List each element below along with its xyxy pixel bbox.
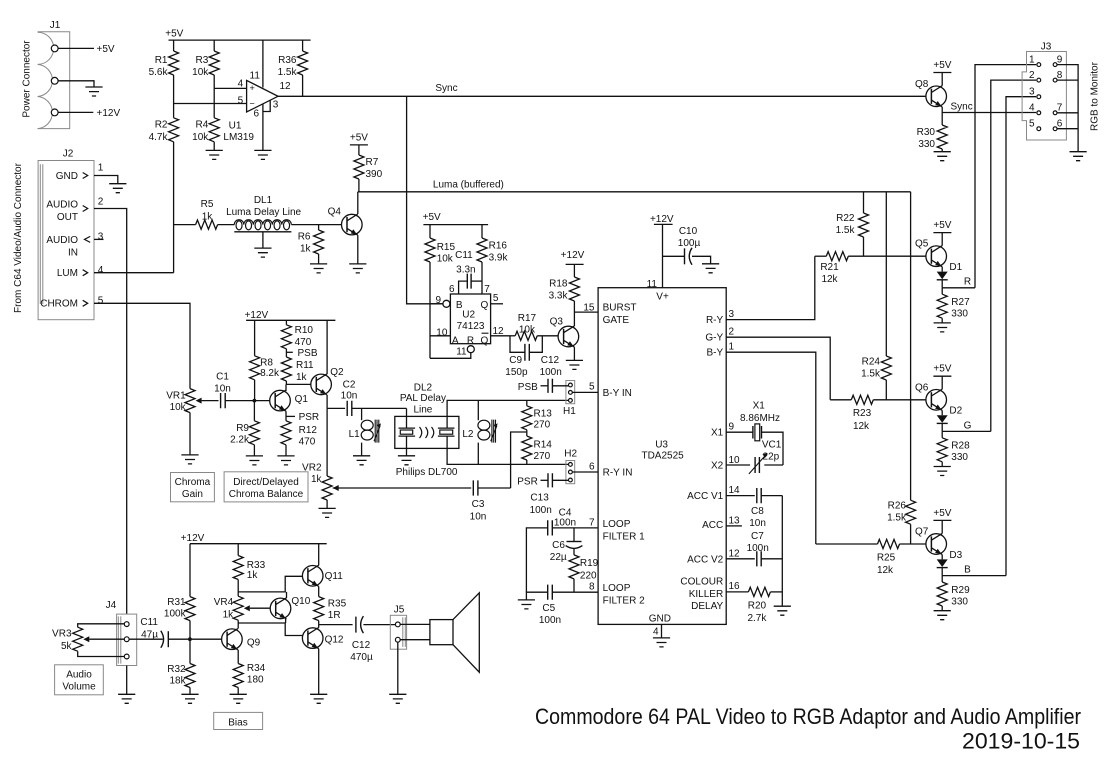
svg-text:13: 13 [729, 515, 741, 526]
svg-text:R17: R17 [518, 313, 537, 324]
wire R1-R2 node to U1 pin5 [174, 75, 247, 118]
svg-text:2: 2 [1029, 70, 1035, 81]
svg-text:3.3n: 3.3n [456, 264, 475, 275]
pin 12 U2 output wire [491, 326, 510, 337]
resistor R33 1k [233, 544, 265, 597]
svg-text:D3: D3 [949, 550, 962, 561]
wires J3 pins 9 8 7 6 to ground [1057, 65, 1078, 152]
svg-text:AUDIO: AUDIO [46, 200, 78, 211]
svg-text:4: 4 [238, 78, 244, 89]
svg-text:TDA2525: TDA2525 [641, 451, 684, 462]
svg-text:Line: Line [413, 405, 432, 416]
wire LUM to comparator divider and R5 [94, 225, 196, 273]
svg-text:11: 11 [250, 70, 261, 81]
power +12V chroma rail [245, 310, 336, 321]
svg-text:ACC V1: ACC V1 [687, 491, 724, 502]
wire Q11 collector to +12V [318, 544, 320, 566]
speaker [400, 593, 479, 672]
svg-text:R4: R4 [196, 120, 209, 131]
svg-text:2019-10-15: 2019-10-15 [962, 729, 1080, 754]
svg-text:LOOP: LOOP [603, 583, 631, 594]
svg-text:10n: 10n [470, 512, 487, 523]
svg-text:PAL Delay: PAL Delay [400, 393, 446, 404]
resistor R30 330 [917, 113, 948, 152]
svg-text:4.7k: 4.7k [149, 132, 169, 143]
label RGB to Monitor [1090, 61, 1101, 131]
pin 10 label U3 [729, 455, 741, 466]
wire C8/C7/R20 common to ground [781, 496, 783, 607]
svg-text:4: 4 [98, 265, 104, 276]
svg-text:18k: 18k [169, 676, 186, 687]
svg-text:7: 7 [1057, 103, 1063, 114]
svg-text:R28: R28 [951, 441, 970, 452]
svg-text:Gain: Gain [182, 489, 203, 500]
svg-text:R32: R32 [167, 664, 186, 675]
svg-text:DL1: DL1 [254, 195, 273, 206]
resistor R23 12k [830, 395, 926, 432]
svg-text:R24: R24 [862, 357, 881, 368]
power +5V tap Q5 [933, 220, 951, 246]
svg-text:5: 5 [98, 295, 104, 306]
svg-text:Bias: Bias [228, 717, 247, 728]
svg-text:VR3: VR3 [52, 629, 72, 640]
svg-text:+12V: +12V [650, 214, 674, 225]
resistor R5 1k [196, 199, 218, 229]
resistor R36 1.5k [278, 40, 308, 96]
ground R4 [206, 150, 223, 159]
svg-text:1k: 1k [223, 610, 235, 621]
connector J1 (power connector) [38, 20, 70, 129]
svg-text:KILLER: KILLER [689, 589, 723, 600]
svg-text:R35: R35 [328, 598, 347, 609]
svg-text:74123: 74123 [457, 321, 485, 332]
svg-text:X1: X1 [753, 400, 766, 411]
svg-text:3: 3 [98, 232, 104, 243]
svg-text:Q12: Q12 [325, 635, 344, 646]
svg-text:R33: R33 [247, 560, 266, 571]
svg-text:10: 10 [436, 327, 448, 338]
svg-text:+5V: +5V [97, 44, 115, 55]
svg-text:15: 15 [583, 302, 595, 313]
svg-text:R23: R23 [853, 408, 872, 419]
ground R20 [774, 606, 791, 615]
svg-text:3.3k: 3.3k [549, 290, 569, 301]
svg-text:10n: 10n [749, 518, 766, 529]
svg-text:C11: C11 [455, 250, 473, 261]
svg-text:B: B [456, 300, 463, 311]
svg-text:6: 6 [589, 461, 595, 472]
svg-text:D1: D1 [949, 262, 962, 273]
svg-text:R12: R12 [299, 425, 318, 436]
node B output [942, 565, 1006, 576]
svg-text:1.5k: 1.5k [887, 513, 907, 524]
svg-text:470µ: 470µ [350, 652, 373, 663]
svg-text:5: 5 [493, 293, 499, 304]
capacitor C1 10n [214, 371, 231, 408]
svg-text:COLOUR: COLOUR [680, 577, 723, 588]
node PSB tick [286, 348, 317, 359]
wire Q2 collector to +12V [326, 320, 328, 374]
svg-text:150p: 150p [505, 367, 528, 378]
pin 2 U3 G-Y output wire [726, 326, 830, 400]
capacitor C6 22u (polarized) [550, 528, 583, 563]
node G output [942, 420, 991, 431]
svg-text:22µ: 22µ [550, 552, 567, 563]
svg-text:U1: U1 [229, 121, 242, 132]
resistor R14 270 [522, 436, 552, 464]
svg-text:Chroma: Chroma [175, 477, 211, 488]
wire VR3 wiper to J4 pin2 [89, 638, 124, 640]
svg-text:C1: C1 [216, 371, 229, 382]
svg-text:330: 330 [951, 452, 968, 463]
ground Q12 [310, 694, 327, 703]
capacitor C10 100u [663, 226, 711, 265]
svg-text:330: 330 [918, 139, 935, 150]
svg-text:B-Y IN: B-Y IN [603, 388, 632, 399]
resistor R17 10k [510, 313, 558, 341]
wire Q3 emitter to ground [573, 347, 575, 360]
power +5V tap R7 [350, 132, 368, 155]
ground R30 [934, 152, 951, 161]
svg-text:+: + [249, 83, 254, 93]
header H2 [564, 448, 577, 483]
wire X1 to VC1 loop [726, 432, 783, 465]
wire J4 shield to ground [126, 666, 128, 695]
pin labels J3 right [1057, 54, 1063, 129]
wire U3 pin7 loop filter 1 [526, 528, 598, 592]
svg-text:VR1: VR1 [166, 390, 186, 401]
pin 12 label U1 [280, 81, 292, 92]
transistor Q9 [222, 629, 261, 650]
pin 3 U1 output hook [263, 99, 279, 111]
svg-text:100n: 100n [539, 615, 561, 626]
box label Bias [214, 712, 263, 729]
wire VR2 wiper to C3 [333, 487, 472, 489]
svg-text:R8: R8 [260, 358, 273, 369]
capacitor C11 3.3n [455, 250, 482, 294]
svg-text:R31: R31 [167, 597, 186, 608]
wire R15 to U2 pins B/A/R [430, 262, 471, 358]
svg-text:C11: C11 [140, 617, 158, 628]
capacitor C12 470u (polarized) [350, 616, 395, 663]
wire DL2 input bottom to ground [406, 436, 408, 456]
pin 3 U3 R-Y output wire [726, 256, 815, 320]
svg-text:6: 6 [1057, 118, 1063, 129]
power +5V tap Q6 [933, 364, 951, 390]
svg-text:16: 16 [729, 581, 741, 592]
svg-text:J4: J4 [106, 600, 117, 611]
svg-text:LM319: LM319 [223, 132, 254, 143]
svg-text:5: 5 [238, 95, 244, 106]
svg-text:−: − [249, 98, 254, 108]
svg-text:12: 12 [729, 548, 741, 559]
svg-text:+5V: +5V [933, 220, 951, 231]
svg-text:H1: H1 [563, 406, 576, 417]
svg-text:Q7: Q7 [915, 527, 929, 538]
wire C2 to DL2 input [352, 407, 407, 409]
svg-text:390: 390 [366, 169, 383, 180]
pin 1 U3 B-Y output wire [726, 341, 816, 544]
svg-text:G: G [964, 420, 972, 431]
power +5V main rail [165, 28, 310, 40]
svg-text:Volume: Volume [62, 682, 96, 693]
svg-text:CHROM: CHROM [40, 299, 78, 310]
label Power Connector [22, 40, 33, 118]
capacitor C3 10n [470, 480, 487, 522]
connector J2 (C64 video/audio) [38, 149, 94, 320]
header H1 [563, 381, 576, 418]
wire J1 pin1 +5V [58, 44, 115, 55]
svg-text:R-Y: R-Y [706, 315, 724, 326]
pin 6 U1 to ground [254, 104, 263, 150]
resistor R16 3.9k [477, 225, 509, 264]
wire B node to J3 pin3 [1006, 97, 1036, 576]
svg-text:R29: R29 [951, 585, 970, 596]
connector J5 [390, 604, 406, 649]
svg-text:+12V: +12V [561, 250, 585, 261]
svg-text:2: 2 [729, 326, 735, 337]
svg-text:VC1: VC1 [762, 440, 782, 451]
wire DL1 shield tap [234, 232, 291, 248]
svg-text:R2: R2 [155, 120, 168, 131]
svg-text:C3: C3 [472, 499, 485, 510]
svg-text:R15: R15 [437, 242, 456, 253]
pin 8 label U3 [589, 582, 595, 593]
svg-text:R22: R22 [836, 213, 855, 224]
svg-text:10: 10 [729, 455, 741, 466]
svg-text:+5V: +5V [933, 364, 951, 375]
transistor Q10 [270, 596, 311, 619]
resistor R35 1R [314, 586, 347, 624]
connector J3 DE-9 (RGB to monitor) [1022, 42, 1066, 140]
svg-text:C7: C7 [751, 531, 764, 542]
svg-text:C12: C12 [541, 355, 560, 366]
svg-text:Philips DL700: Philips DL700 [396, 467, 458, 478]
resistor R9 2.2k [230, 401, 259, 456]
svg-text:C2: C2 [343, 379, 356, 390]
pin 16 U3 colour killer wire [726, 581, 748, 592]
capacitor C13 100n (PSR coupling) [517, 473, 568, 516]
svg-text:Q4: Q4 [328, 206, 342, 217]
date text [962, 729, 1080, 754]
svg-text:R9: R9 [236, 423, 249, 434]
svg-text:FILTER 1: FILTER 1 [603, 531, 645, 542]
pin 4 U3 GND [653, 624, 662, 638]
ground VR1 [181, 455, 198, 464]
inductor L2 [462, 400, 497, 464]
svg-text:6: 6 [449, 284, 455, 295]
wire DL1 to Q4 base [291, 224, 341, 226]
svg-text:GND: GND [56, 171, 78, 182]
svg-text:10k: 10k [192, 67, 209, 78]
svg-text:Q9: Q9 [247, 638, 261, 649]
svg-text:1.5k: 1.5k [861, 368, 881, 379]
ground J5 [389, 694, 406, 703]
svg-text:C9: C9 [509, 355, 522, 366]
svg-text:Q: Q [481, 300, 489, 311]
svg-text:10n: 10n [214, 384, 231, 395]
crystal X1 8.86MHz [740, 400, 780, 440]
svg-text:5k: 5k [61, 641, 73, 652]
svg-text:C13: C13 [530, 493, 549, 504]
wire Q10 collector to R33/Q11 node [286, 592, 288, 598]
svg-text:Direct/Delayed: Direct/Delayed [233, 477, 299, 488]
ground Q3 [566, 360, 583, 369]
svg-text:PSR: PSR [299, 412, 320, 423]
power +5V tap Q7 [933, 508, 951, 534]
pin 7 label U2 [484, 284, 490, 295]
ground loop filter [518, 600, 535, 609]
svg-text:1k: 1k [296, 372, 308, 383]
svg-text:+5V: +5V [165, 28, 183, 39]
svg-text:100n: 100n [747, 543, 769, 554]
svg-text:4: 4 [1029, 103, 1035, 114]
svg-text:3: 3 [1029, 86, 1035, 97]
transistor Q11 [302, 565, 343, 586]
capacitor C11 47u (polarized) [129, 617, 221, 648]
ground VR2 [319, 508, 336, 517]
svg-text:U2: U2 [462, 310, 475, 321]
resistor R27 330 [937, 288, 970, 323]
resistor R2 4.7k [149, 118, 179, 143]
svg-text:R34: R34 [247, 663, 266, 674]
svg-text:9: 9 [729, 422, 735, 433]
svg-text:DL2: DL2 [414, 382, 433, 393]
wire CHROM to VR1 [94, 303, 190, 388]
pin 12 U3 ACC V2 wire [726, 548, 755, 559]
resistor R15 10k [425, 225, 455, 265]
svg-text:Q6: Q6 [915, 382, 929, 393]
ground R12 [277, 456, 294, 465]
svg-text:Chroma Balance: Chroma Balance [229, 489, 304, 500]
transistor Q7 [915, 527, 946, 555]
svg-text:22p: 22p [763, 451, 780, 462]
resistor R22 1.5k [836, 192, 869, 256]
svg-text:12: 12 [493, 326, 505, 337]
svg-text:A: A [452, 335, 459, 346]
resistor R24 1.5k [861, 192, 891, 400]
wire Q12 emitter to ground [318, 649, 320, 695]
svg-text:AUDIO: AUDIO [46, 235, 78, 246]
ground DL2 [398, 456, 415, 465]
svg-text:1.5k: 1.5k [836, 225, 856, 236]
svg-text:+5V: +5V [933, 60, 951, 71]
pin 5 label U1 [238, 95, 244, 106]
svg-text:R6: R6 [298, 232, 311, 243]
ground Q4 [349, 264, 366, 273]
box label Direct/Delayed Chroma Balance [224, 472, 308, 502]
svg-text:1k: 1k [247, 570, 259, 581]
svg-text:Luma Delay Line: Luma Delay Line [226, 207, 301, 218]
pin 10 label U2 [436, 327, 448, 338]
svg-text:180: 180 [247, 675, 264, 686]
resistor R11 1k [281, 357, 314, 383]
svg-text:Luma (buffered): Luma (buffered) [433, 179, 504, 190]
svg-text:5.6k: 5.6k [149, 67, 169, 78]
ground DL1 [254, 248, 271, 257]
svg-text:C5: C5 [542, 603, 555, 614]
pin 9 U3 X1 wire [726, 422, 753, 433]
svg-text:J1: J1 [50, 20, 61, 31]
pin 6 label U2 [449, 284, 455, 295]
svg-text:Q3: Q3 [550, 317, 564, 328]
transistor Q8 [915, 79, 946, 107]
svg-text:8.2k: 8.2k [260, 368, 280, 379]
svg-text:Q: Q [481, 335, 489, 346]
resistor R10 470 [281, 320, 313, 349]
wire VR2 to ground [326, 500, 328, 508]
ground R28 [934, 467, 951, 476]
svg-text:LUM: LUM [57, 268, 78, 279]
svg-text:270: 270 [534, 420, 551, 431]
svg-text:BURST: BURST [603, 303, 637, 314]
svg-text:+5V: +5V [933, 508, 951, 519]
resistor R26 1.5k [887, 192, 916, 544]
potentiometer VR3 5k [52, 627, 89, 652]
ground C10 [702, 264, 719, 273]
svg-text:7: 7 [589, 517, 595, 528]
diode D2 [937, 406, 963, 432]
title text [535, 704, 1081, 729]
svg-text:330: 330 [951, 596, 968, 607]
resistor R19 220 [569, 555, 599, 592]
svg-text:12k: 12k [853, 421, 870, 432]
svg-text:C10: C10 [679, 226, 698, 237]
resistor R28 330 [937, 431, 970, 466]
svg-text:R27: R27 [951, 297, 970, 308]
resistor R3 10k [192, 40, 219, 78]
svg-text:+12V: +12V [181, 533, 205, 544]
svg-text:1.5k: 1.5k [278, 67, 298, 78]
wire Sync to U2 pin9 B input [407, 96, 443, 303]
svg-text:1: 1 [1029, 54, 1035, 65]
svg-text:R: R [467, 335, 474, 346]
capacitor C2 10n [341, 379, 358, 416]
wire R3-R4 node to U1 pin4 [214, 75, 246, 118]
svg-text:+12V: +12V [245, 310, 269, 321]
svg-text:G-Y: G-Y [705, 333, 723, 344]
svg-text:R14: R14 [534, 440, 553, 451]
svg-text:470: 470 [299, 437, 316, 448]
wire H2 to U3 pin6 R-Y IN [572, 461, 598, 472]
potentiometer VR4 1k [214, 596, 250, 620]
svg-text:1k: 1k [202, 211, 214, 222]
svg-text:RGB to Monitor: RGB to Monitor [1090, 61, 1101, 131]
variable capacitor VC1 22p [749, 440, 782, 474]
wire R13-R14 node to C3 line [511, 430, 527, 488]
svg-text:2: 2 [98, 197, 104, 208]
diode D3 [937, 550, 963, 576]
svg-text:10k: 10k [170, 402, 187, 413]
resistor R13 270 [522, 400, 552, 430]
svg-text:C8: C8 [751, 506, 764, 517]
svg-text:4: 4 [653, 627, 659, 638]
svg-text:H2: H2 [564, 448, 577, 459]
svg-text:Sync: Sync [951, 101, 973, 112]
svg-text:R16: R16 [489, 241, 508, 252]
svg-text:J3: J3 [1041, 42, 1052, 53]
pin 5 U2 Q stub [491, 293, 503, 304]
svg-text:5: 5 [1029, 118, 1035, 129]
wire VR3 bottom to J4 pin3 [78, 651, 125, 656]
wire C3 to R13/R14 node [478, 487, 511, 489]
svg-text:ACC: ACC [702, 520, 723, 531]
svg-text:14: 14 [729, 485, 741, 496]
svg-text:10k: 10k [437, 254, 454, 265]
wire G node to J3 pin2 [991, 80, 1036, 431]
pin 9 label U2 [435, 295, 441, 306]
pin labels J3 left [1029, 54, 1035, 129]
